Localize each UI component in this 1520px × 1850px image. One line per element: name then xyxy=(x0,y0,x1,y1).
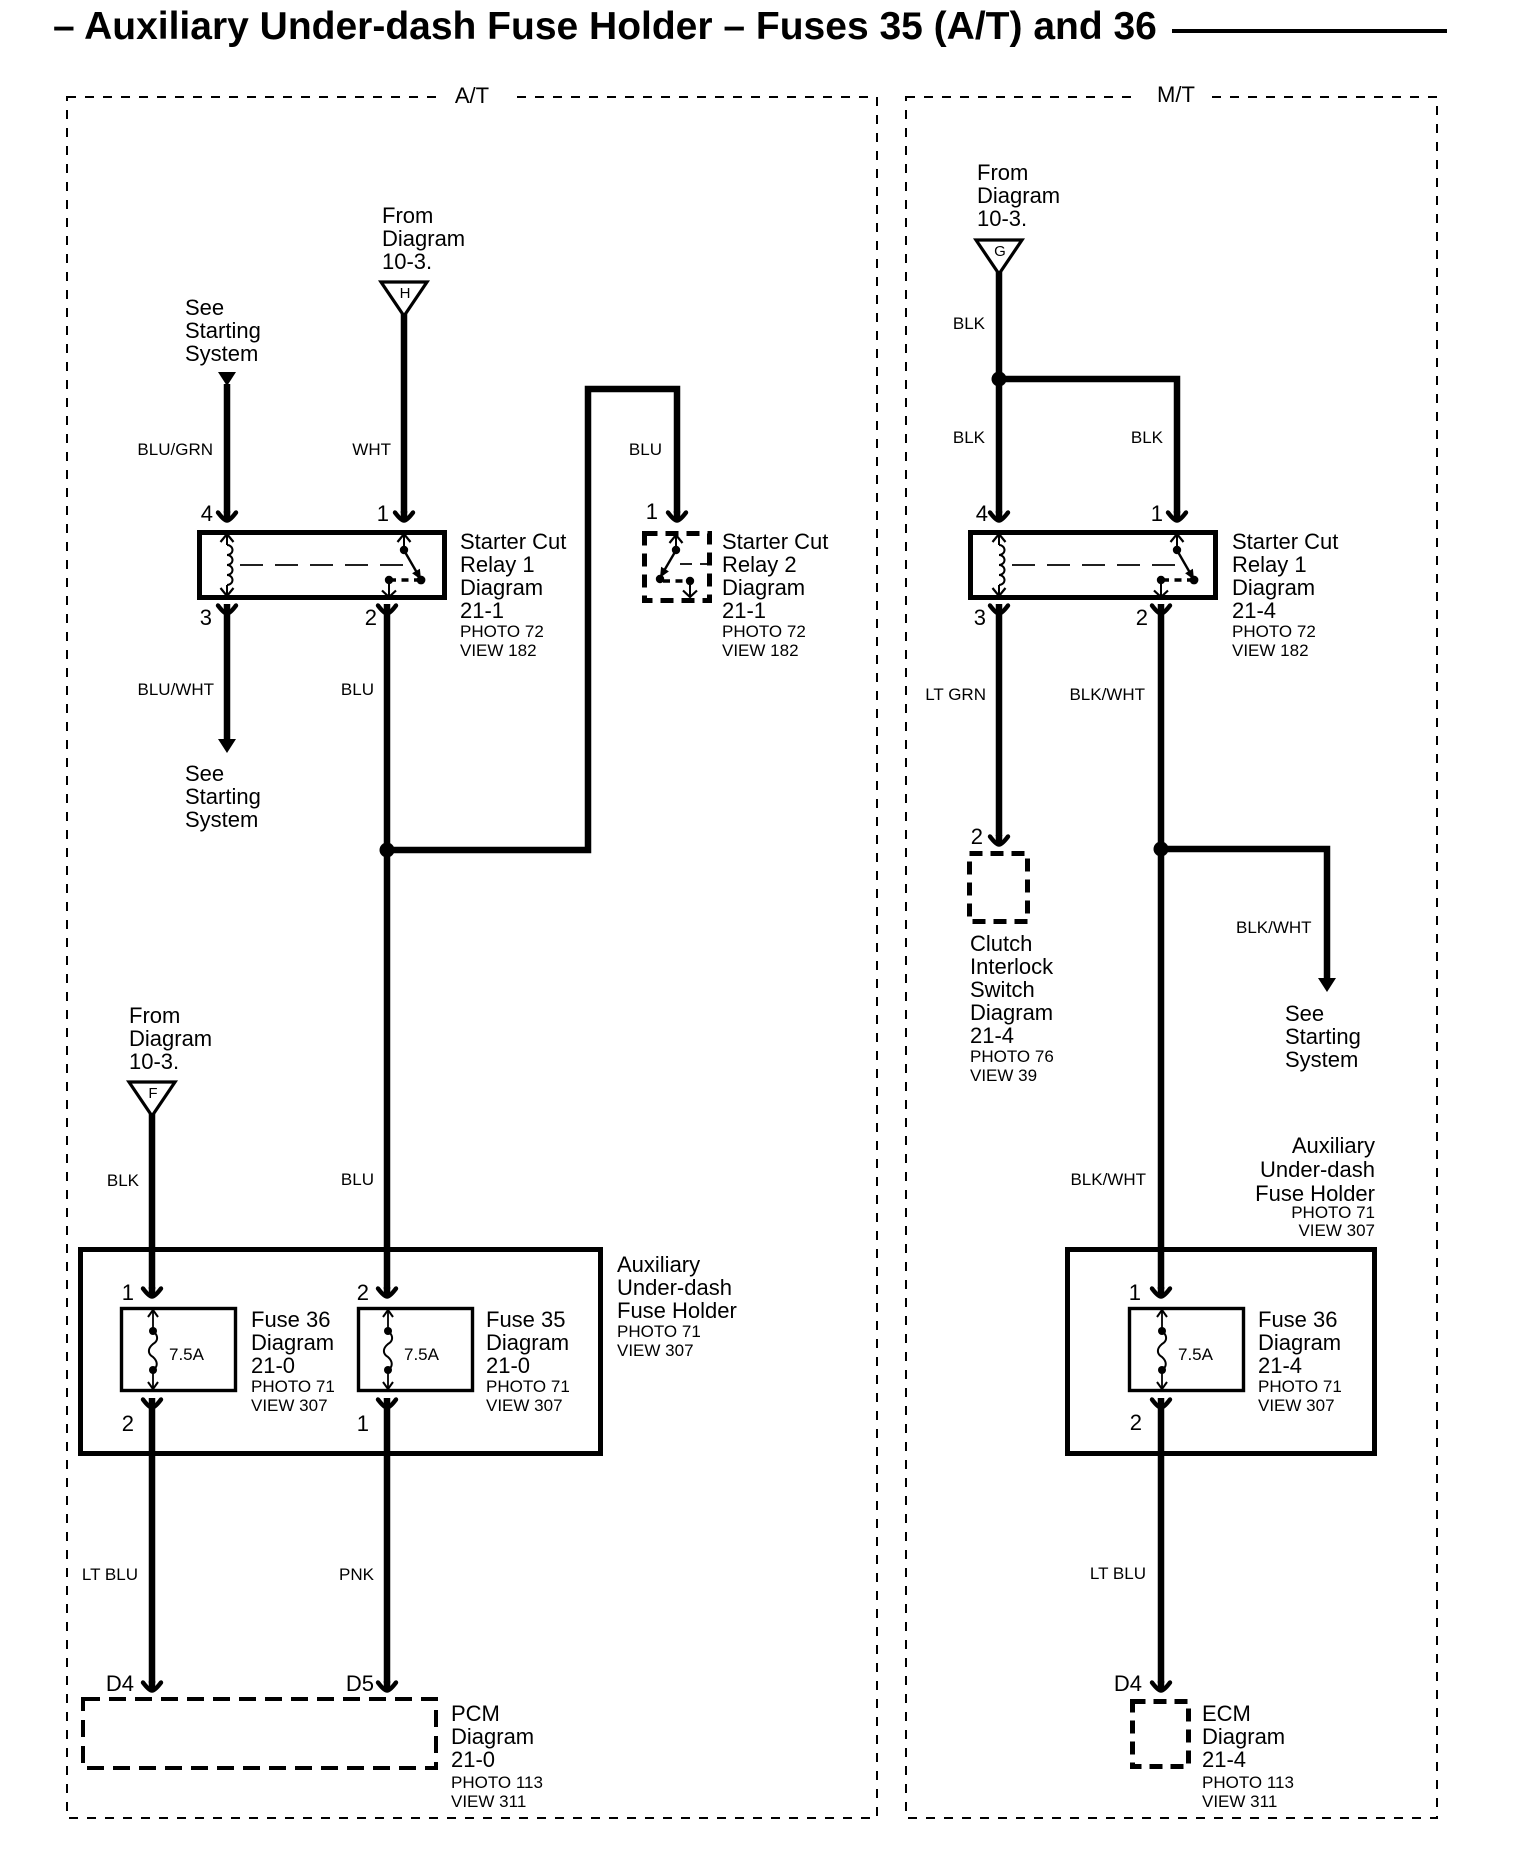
svg-text:Fuse 35: Fuse 35 xyxy=(486,1307,566,1332)
svg-text:Starter Cut: Starter Cut xyxy=(1232,529,1338,554)
svg-text:System: System xyxy=(1285,1047,1358,1072)
terminal pin 1 fuse36 M/T xyxy=(1152,1289,1170,1297)
starter cut relay 1 (M/T) box xyxy=(971,533,1216,598)
svg-text:21-4: 21-4 xyxy=(1232,598,1276,623)
starter cut relay 2 dashed box xyxy=(645,534,710,601)
svg-text:D5: D5 xyxy=(346,1671,374,1696)
svg-text:7.5A: 7.5A xyxy=(404,1345,440,1364)
relay2 internal dashed link xyxy=(680,563,708,565)
svg-text:7.5A: 7.5A xyxy=(1178,1345,1214,1364)
wire BLU/GRN xyxy=(224,384,231,513)
svg-text:PCM: PCM xyxy=(451,1701,500,1726)
terminal D5 PCM xyxy=(378,1683,396,1691)
svg-text:LT GRN: LT GRN xyxy=(925,685,986,704)
terminal pin 1 fuse36 xyxy=(143,1289,161,1297)
junction node xyxy=(380,843,395,858)
svg-text:21-1: 21-1 xyxy=(722,598,766,623)
svg-text:– Auxiliary Under-dash Fuse Ho: – Auxiliary Under-dash Fuse Holder – Fus… xyxy=(53,5,1157,48)
svg-text:Diagram: Diagram xyxy=(486,1330,569,1355)
svg-text:F: F xyxy=(148,1085,157,1102)
wire WHT xyxy=(401,314,408,513)
clutch interlock switch dashed box xyxy=(970,854,1028,922)
svg-text:Diagram: Diagram xyxy=(451,1724,534,1749)
terminal pin 2 fuse35 xyxy=(378,1289,396,1297)
terminal pin 4 relay1 xyxy=(218,513,236,521)
starter cut relay 1 (A/T) box xyxy=(200,533,445,598)
svg-text:Diagram: Diagram xyxy=(460,575,543,600)
svg-text:1: 1 xyxy=(646,499,658,524)
fuse 36 box xyxy=(122,1309,236,1391)
svg-text:Diagram: Diagram xyxy=(251,1330,334,1355)
svg-text:Starter Cut: Starter Cut xyxy=(722,529,828,554)
svg-text:4: 4 xyxy=(976,501,988,526)
svg-text:BLU: BLU xyxy=(341,680,374,699)
terminal pin 3 relay1 M/T xyxy=(990,606,1008,614)
junction node BLK/WHT xyxy=(1154,842,1169,857)
M/T frame xyxy=(906,97,1437,1818)
svg-text:ECM: ECM xyxy=(1202,1701,1251,1726)
svg-text:Interlock: Interlock xyxy=(970,954,1054,979)
svg-text:21-4: 21-4 xyxy=(1258,1353,1302,1378)
svg-text:Fuse 36: Fuse 36 xyxy=(251,1307,331,1332)
svg-text:1: 1 xyxy=(1151,501,1163,526)
svg-text:VIEW 182: VIEW 182 xyxy=(460,641,537,660)
terminal pin 1 relay2 xyxy=(668,513,686,521)
svg-text:PHOTO 71: PHOTO 71 xyxy=(1291,1203,1375,1222)
svg-text:WHT: WHT xyxy=(352,440,391,459)
svg-text:PHOTO 113: PHOTO 113 xyxy=(451,1773,543,1792)
svg-text:VIEW 307: VIEW 307 xyxy=(251,1396,328,1415)
svg-text:LT BLU: LT BLU xyxy=(82,1565,138,1584)
wire BLU/WHT to starting system xyxy=(224,613,231,740)
terminal pin 2 clutch switch xyxy=(990,837,1008,845)
svg-text:VIEW 311: VIEW 311 xyxy=(451,1792,526,1811)
svg-text:7.5A: 7.5A xyxy=(169,1345,205,1364)
svg-text:10-3.: 10-3. xyxy=(977,206,1027,231)
relay1 coil and switch xyxy=(221,534,234,542)
svg-text:PHOTO 71: PHOTO 71 xyxy=(617,1322,701,1341)
svg-text:VIEW 182: VIEW 182 xyxy=(1232,641,1309,660)
title rule xyxy=(1172,29,1447,33)
svg-text:2: 2 xyxy=(122,1411,134,1436)
A/T frame xyxy=(67,97,877,1818)
svg-text:VIEW 182: VIEW 182 xyxy=(722,641,799,660)
svg-text:From: From xyxy=(129,1003,180,1028)
svg-text:System: System xyxy=(185,807,258,832)
svg-text:Diagram: Diagram xyxy=(1202,1724,1285,1749)
svg-text:Diagram: Diagram xyxy=(1232,575,1315,600)
svg-text:1: 1 xyxy=(377,501,389,526)
terminal pin 4 relay1 M/T xyxy=(990,513,1008,521)
svg-text:BLK: BLK xyxy=(1131,428,1164,447)
svg-text:21-0: 21-0 xyxy=(486,1353,530,1378)
svg-text:Relay 2: Relay 2 xyxy=(722,552,797,577)
svg-text:VIEW 307: VIEW 307 xyxy=(617,1341,694,1360)
wire branch BLK to relay pin 1 xyxy=(999,379,1177,513)
fuse 35 element 7.5A xyxy=(383,1310,393,1317)
svg-text:See: See xyxy=(185,295,224,320)
svg-text:Diagram: Diagram xyxy=(382,226,465,251)
wire LT BLU to ECM D4 xyxy=(1158,1407,1165,1683)
svg-text:VIEW 311: VIEW 311 xyxy=(1202,1792,1277,1811)
svg-text:2: 2 xyxy=(1136,605,1148,630)
wire BLK xyxy=(149,1114,156,1289)
svg-text:2: 2 xyxy=(971,824,983,849)
PCM dashed box xyxy=(83,1699,436,1768)
svg-text:BLK: BLK xyxy=(953,428,986,447)
svg-text:BLU: BLU xyxy=(629,440,662,459)
svg-text:Fuse 36: Fuse 36 xyxy=(1258,1307,1338,1332)
svg-text:Clutch: Clutch xyxy=(970,931,1032,956)
svg-text:BLU/GRN: BLU/GRN xyxy=(137,440,213,459)
terminal pin 2 relay1 M/T xyxy=(1152,606,1170,614)
svg-text:Diagram: Diagram xyxy=(1258,1330,1341,1355)
fuse 36 M/T element 7.5A xyxy=(1157,1310,1167,1317)
terminal pin 2 relay1 xyxy=(378,606,396,614)
svg-text:BLU/WHT: BLU/WHT xyxy=(138,680,215,699)
svg-text:M/T: M/T xyxy=(1157,82,1195,107)
terminal pin 1 relay1 M/T xyxy=(1168,513,1186,521)
svg-text:21-1: 21-1 xyxy=(460,598,504,623)
wire PNK to PCM D5 xyxy=(384,1407,391,1683)
svg-text:Starting: Starting xyxy=(185,784,261,809)
terminal pin 1 relay1 xyxy=(395,513,413,521)
fuse 36 M/T box xyxy=(1130,1309,1244,1391)
svg-text:BLK/WHT: BLK/WHT xyxy=(1070,1170,1146,1189)
svg-text:Diagram: Diagram xyxy=(970,1000,1053,1025)
svg-text:21-0: 21-0 xyxy=(251,1353,295,1378)
svg-text:See: See xyxy=(1285,1001,1324,1026)
svg-text:G: G xyxy=(994,243,1006,260)
svg-text:LT BLU: LT BLU xyxy=(1090,1564,1146,1583)
svg-text:PHOTO 72: PHOTO 72 xyxy=(460,622,544,641)
terminal pin 2 fuse36 xyxy=(143,1400,161,1408)
wire BLK/WHT relay pin2 down to fuse 36 xyxy=(1158,613,1165,1289)
svg-text:BLK: BLK xyxy=(107,1171,140,1190)
svg-text:Diagram: Diagram xyxy=(722,575,805,600)
terminal pin 1 fuse35 xyxy=(378,1400,396,1408)
svg-text:Diagram: Diagram xyxy=(977,183,1060,208)
svg-text:See: See xyxy=(185,761,224,786)
svg-text:Starting: Starting xyxy=(185,318,261,343)
svg-text:2: 2 xyxy=(365,605,377,630)
svg-text:1: 1 xyxy=(357,1411,369,1436)
relay2 internal switch xyxy=(670,535,683,543)
svg-text:BLK/WHT: BLK/WHT xyxy=(1236,918,1312,937)
wire LT BLU to PCM D4 xyxy=(149,1407,156,1683)
svg-text:PHOTO 71: PHOTO 71 xyxy=(486,1377,570,1396)
terminal pin 3 relay1 xyxy=(218,606,236,614)
svg-text:PHOTO 71: PHOTO 71 xyxy=(251,1377,335,1396)
svg-text:3: 3 xyxy=(200,605,212,630)
svg-text:System: System xyxy=(185,341,258,366)
wire BLK from G xyxy=(996,272,1003,513)
svg-text:BLK: BLK xyxy=(953,314,986,333)
wire LT GRN to clutch interlock switch xyxy=(996,613,1003,836)
svg-text:PHOTO 76: PHOTO 76 xyxy=(970,1047,1054,1066)
relay1 M/T internal dashed link xyxy=(1012,564,1180,566)
svg-text:Switch: Switch xyxy=(970,977,1035,1002)
wire BLU from relay1 pin2 down to fuse 35 xyxy=(384,613,391,1289)
svg-text:VIEW 39: VIEW 39 xyxy=(970,1066,1037,1085)
svg-text:Fuse Holder: Fuse Holder xyxy=(617,1298,737,1323)
ECM dashed box xyxy=(1133,1702,1189,1767)
svg-text:PHOTO 72: PHOTO 72 xyxy=(1232,622,1316,641)
svg-text:1: 1 xyxy=(1129,1280,1141,1305)
svg-text:VIEW 307: VIEW 307 xyxy=(1298,1221,1375,1240)
svg-text:VIEW 307: VIEW 307 xyxy=(1258,1396,1335,1415)
svg-text:Relay 1: Relay 1 xyxy=(1232,552,1307,577)
svg-text:Diagram: Diagram xyxy=(129,1026,212,1051)
svg-text:A/T: A/T xyxy=(455,83,489,108)
svg-text:Under-dash: Under-dash xyxy=(617,1275,732,1300)
svg-text:2: 2 xyxy=(1130,1410,1142,1435)
svg-text:21-0: 21-0 xyxy=(451,1747,495,1772)
svg-text:VIEW 307: VIEW 307 xyxy=(486,1396,563,1415)
terminal D4 ECM xyxy=(1152,1683,1170,1691)
svg-text:PNK: PNK xyxy=(339,1565,375,1584)
svg-text:10-3.: 10-3. xyxy=(129,1049,179,1074)
svg-text:PHOTO 113: PHOTO 113 xyxy=(1202,1773,1294,1792)
svg-text:H: H xyxy=(400,285,411,302)
svg-text:4: 4 xyxy=(201,501,213,526)
svg-text:D4: D4 xyxy=(1114,1671,1142,1696)
svg-text:Starting: Starting xyxy=(1285,1024,1361,1049)
wire branch BLK/WHT to starting system xyxy=(1161,849,1327,979)
svg-text:BLK/WHT: BLK/WHT xyxy=(1069,685,1145,704)
fuse 35 box xyxy=(359,1309,473,1391)
svg-text:3: 3 xyxy=(974,605,986,630)
relay1 internal dashed link xyxy=(240,564,408,566)
svg-text:From: From xyxy=(977,160,1028,185)
svg-text:Relay 1: Relay 1 xyxy=(460,552,535,577)
svg-text:Auxiliary: Auxiliary xyxy=(1292,1133,1375,1158)
svg-text:Under-dash: Under-dash xyxy=(1260,1157,1375,1182)
terminal pin 2 fuse36 M/T xyxy=(1152,1400,1170,1408)
auxiliary under-dash fuse holder (A/T) box xyxy=(81,1250,601,1454)
arrow from starting system xyxy=(218,372,236,386)
svg-text:Auxiliary: Auxiliary xyxy=(617,1252,700,1277)
svg-text:2: 2 xyxy=(357,1280,369,1305)
svg-text:From: From xyxy=(382,203,433,228)
svg-text:BLU: BLU xyxy=(341,1170,374,1189)
svg-text:21-4: 21-4 xyxy=(1202,1747,1246,1772)
svg-text:PHOTO 72: PHOTO 72 xyxy=(722,622,806,641)
terminal D4 PCM xyxy=(143,1683,161,1691)
svg-text:10-3.: 10-3. xyxy=(382,249,432,274)
wire branch to relay 2 xyxy=(387,389,677,850)
svg-text:21-4: 21-4 xyxy=(970,1023,1014,1048)
svg-text:PHOTO 71: PHOTO 71 xyxy=(1258,1377,1342,1396)
svg-text:Starter Cut: Starter Cut xyxy=(460,529,566,554)
relay1 M/T coil and switch xyxy=(993,534,1006,542)
junction node M/T xyxy=(992,372,1007,387)
svg-text:1: 1 xyxy=(122,1280,134,1305)
auxiliary under-dash fuse holder (M/T) box xyxy=(1068,1250,1375,1454)
fuse 36 element 7.5A xyxy=(148,1310,158,1317)
svg-text:D4: D4 xyxy=(106,1671,134,1696)
